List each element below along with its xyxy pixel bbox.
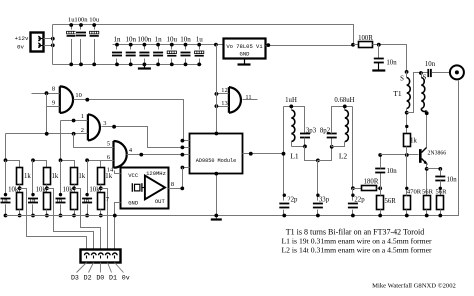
svg-text:1k: 1k	[24, 173, 31, 180]
svg-text:1n: 1n	[1, 198, 8, 205]
svg-text:1: 1	[81, 113, 84, 120]
svg-text:8p2: 8p2	[320, 128, 331, 135]
svg-text:S: S	[400, 76, 404, 83]
svg-text:D2: D2	[84, 275, 92, 282]
svg-text:Vo 78L05 Vi: Vo 78L05 Vi	[226, 43, 263, 50]
svg-text:10k: 10k	[36, 187, 47, 194]
svg-text:56R: 56R	[385, 198, 397, 205]
svg-text:D1: D1	[109, 275, 117, 282]
svg-text:10: 10	[75, 92, 81, 99]
svg-text:1k: 1k	[52, 173, 59, 180]
svg-text:6: 6	[107, 154, 110, 161]
svg-text:0.68uH: 0.68uH	[334, 97, 354, 104]
svg-text:GND: GND	[128, 199, 139, 206]
svg-text:14: 14	[107, 166, 114, 173]
svg-text:10k: 10k	[62, 187, 73, 194]
svg-text:10n: 10n	[387, 168, 398, 175]
svg-text:33p: 33p	[319, 197, 330, 204]
svg-text:AD9850 Module: AD9850 Module	[196, 158, 236, 164]
svg-text:+12v: +12v	[15, 35, 29, 42]
svg-text:D0: D0	[96, 275, 104, 282]
svg-text:100n: 100n	[137, 36, 152, 44]
svg-text:1n: 1n	[155, 36, 163, 44]
svg-text:S: S	[423, 75, 427, 82]
svg-text:GND: GND	[240, 51, 251, 58]
svg-text:VCC: VCC	[128, 172, 139, 179]
svg-text:0v: 0v	[17, 44, 24, 51]
svg-text:L1 is 19t 0.31mm enam wire on: L1 is 19t 0.31mm enam wire on a 4.5mm fo…	[281, 237, 432, 246]
svg-text:100R: 100R	[358, 35, 373, 42]
svg-text:L2: L2	[339, 152, 348, 161]
svg-text:1uH: 1uH	[285, 97, 297, 104]
svg-text:2N3866: 2N3866	[428, 151, 447, 157]
svg-text:22p: 22p	[354, 197, 365, 204]
svg-text:2: 2	[81, 127, 84, 134]
svg-text:L2 is 14t 0.31mm enam wire on: L2 is 14t 0.31mm enam wire on a 4.5mm fo…	[281, 246, 432, 255]
svg-text:12: 12	[221, 87, 227, 94]
svg-text:1n: 1n	[56, 198, 63, 205]
svg-text:5: 5	[107, 140, 110, 147]
svg-text:1u: 1u	[196, 36, 204, 44]
svg-text:T1 is 8 turns Bi-filar on an F: T1 is 8 turns Bi-filar on an FT37-42 Tor…	[286, 228, 424, 237]
svg-text:10k: 10k	[89, 187, 100, 194]
svg-text:180R: 180R	[364, 179, 379, 186]
svg-text:10u: 10u	[89, 16, 100, 23]
svg-text:OUT: OUT	[155, 198, 166, 205]
svg-text:8: 8	[52, 86, 55, 93]
svg-text:13: 13	[221, 100, 227, 107]
svg-text:3: 3	[103, 120, 106, 127]
svg-text:1n: 1n	[114, 36, 122, 44]
svg-text:1k: 1k	[78, 173, 85, 180]
svg-text:8: 8	[171, 181, 174, 188]
svg-text:56R: 56R	[436, 188, 448, 195]
svg-text:T1: T1	[393, 89, 402, 98]
svg-text:0v: 0v	[122, 275, 130, 282]
svg-text:100n: 100n	[74, 16, 88, 23]
svg-text:9: 9	[52, 99, 55, 106]
svg-text:10n: 10n	[447, 176, 458, 183]
svg-text:10n: 10n	[180, 36, 191, 44]
svg-text:1k: 1k	[410, 137, 417, 144]
svg-text:10n: 10n	[386, 60, 397, 67]
svg-text:10n: 10n	[125, 36, 136, 44]
svg-text:D3: D3	[71, 275, 79, 282]
svg-text:56R: 56R	[422, 188, 434, 195]
svg-text:L1: L1	[290, 152, 299, 161]
svg-text:Mike Waterfall G8NXD ©2002: Mike Waterfall G8NXD ©2002	[372, 283, 456, 290]
svg-text:120MHz: 120MHz	[146, 170, 166, 177]
svg-text:1n: 1n	[29, 198, 36, 205]
svg-text:470R: 470R	[407, 188, 422, 195]
svg-text:10n: 10n	[425, 61, 436, 68]
svg-text:11: 11	[245, 94, 251, 101]
svg-text:10u: 10u	[167, 36, 178, 44]
svg-text:10k: 10k	[8, 187, 19, 194]
svg-text:1k: 1k	[105, 173, 112, 180]
svg-text:3p3: 3p3	[306, 128, 317, 135]
svg-text:1n: 1n	[83, 198, 90, 205]
